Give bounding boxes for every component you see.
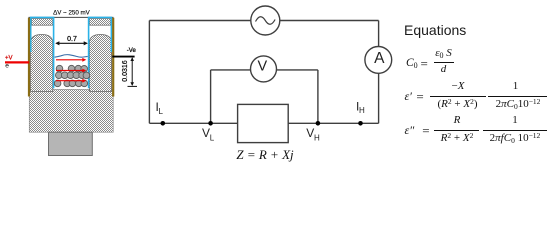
wire: top right segment [280, 20, 379, 22]
svg-text:ΔV ~ 250 mV: ΔV ~ 250 mV [53, 9, 91, 16]
body block (hatched) [29, 90, 113, 133]
right olive wall [112, 18, 114, 97]
main schematic svg [0, 0, 550, 170]
cyan cell top edges [30, 17, 112, 88]
wire: voltmeter loop top right [276, 69, 318, 71]
cyan outer walls [30, 17, 32, 52]
wire: bottom right segment [288, 122, 378, 124]
svg-text:Z = R + Xj: Z = R + Xj [236, 147, 294, 162]
wire: voltmeter loop left vertical [210, 70, 212, 123]
svg-text:0.7: 0.7 [67, 36, 77, 43]
left olive wall [28, 18, 30, 97]
left top hatched pad [32, 19, 53, 26]
node IH [358, 121, 363, 126]
-Ve electrode black lead [112, 56, 134, 58]
svg-text:A: A [374, 50, 385, 67]
left cell interior [30, 18, 55, 89]
svg-text:0.0316: 0.0316 [122, 60, 129, 82]
AC source [251, 6, 280, 35]
svg-text:L: L [210, 134, 215, 143]
wire: top left segment [149, 20, 250, 22]
wire: right vertical lower [378, 73, 380, 123]
node VL [208, 121, 213, 126]
wire: bottom left segment [149, 122, 237, 124]
impedance box Z [238, 104, 289, 142]
node IL [161, 121, 166, 126]
equation eps'' [405, 123, 430, 136]
cyan gap walls [53, 17, 55, 88]
svg-text:V: V [306, 126, 314, 140]
right top hatched pad [89, 19, 110, 26]
equation eps' [405, 89, 424, 102]
liquid meniscus wave [55, 55, 88, 58]
svg-text:H: H [359, 106, 365, 115]
wire: voltmeter loop top left [211, 69, 251, 71]
svg-text:+V: +V [5, 56, 13, 62]
red flow arrow 2 [56, 70, 84, 72]
particle cluster [54, 65, 89, 86]
svg-text:V: V [257, 59, 267, 75]
right dome electrode [89, 35, 111, 92]
node VH [316, 121, 321, 126]
voltmeter V [251, 56, 277, 82]
ammeter A [365, 47, 392, 74]
top cover line [29, 16, 114, 18]
gap dimension arrow [56, 42, 86, 44]
depth dimension arrow 0.0316 [131, 58, 133, 85]
left dome electrode [31, 35, 53, 92]
wire: voltmeter loop right vertical [317, 70, 319, 123]
red flow arrow 3 [56, 80, 84, 82]
svg-text:L: L [159, 107, 164, 116]
svg-text:H: H [314, 134, 320, 143]
wire: left vertical [148, 21, 150, 124]
svg-text:-Ve: -Ve [127, 48, 137, 54]
wire: right vertical upper [378, 21, 380, 47]
+V electrode red lead [5, 61, 29, 63]
red flow arrow 1 [56, 59, 84, 61]
heading Equations [404, 22, 466, 38]
right cell interior [88, 18, 112, 89]
pedestal [49, 132, 93, 155]
equation C0 = e0 S / d [406, 55, 428, 70]
svg-text:e: e [5, 62, 9, 69]
